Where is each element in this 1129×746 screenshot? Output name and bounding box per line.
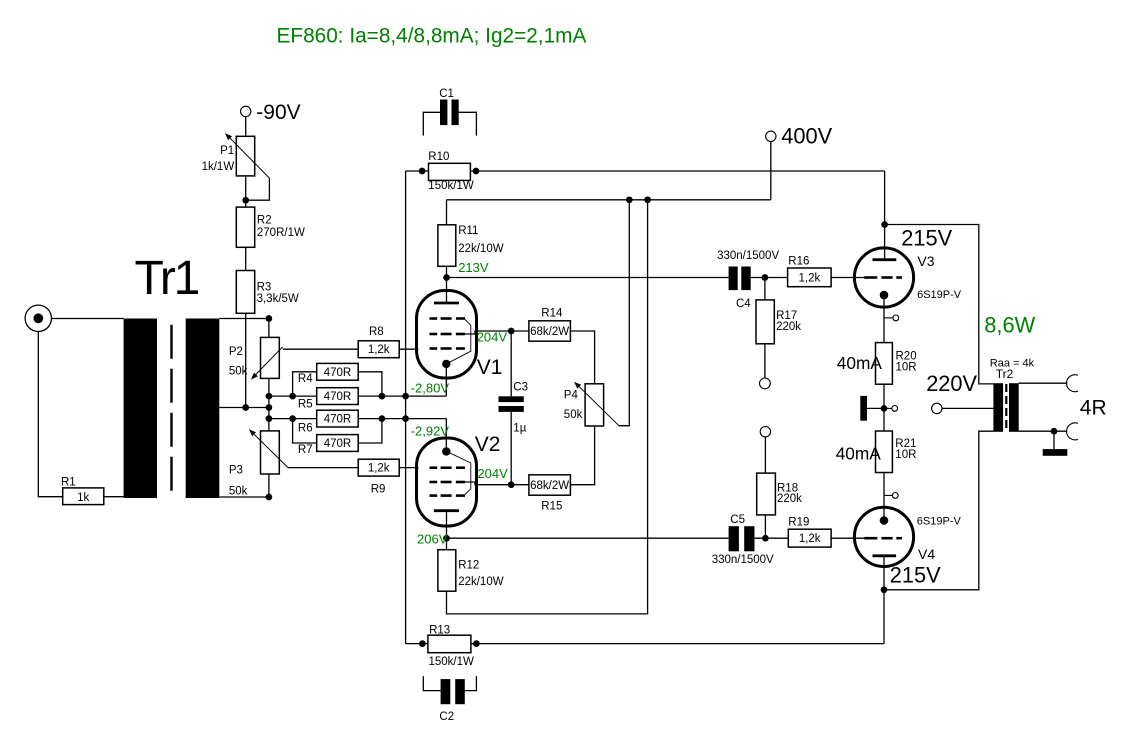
resistor R2	[236, 207, 254, 247]
wire R1 to Tr1 primary bottom	[104, 496, 124, 498]
tube V1 anode plate	[434, 302, 459, 305]
svg-text:470R: 470R	[324, 438, 352, 450]
resistor R7	[317, 435, 359, 452]
resistor R4	[317, 363, 359, 380]
wire V4 anode to Tr2 bottom	[884, 431, 993, 590]
svg-text:R5: R5	[298, 398, 313, 410]
wire P4 wiper to 400V rail	[619, 200, 629, 426]
svg-text:330n/1500V: 330n/1500V	[712, 554, 774, 566]
wire P3 wiper to R9	[288, 467, 358, 469]
svg-text:1k: 1k	[77, 492, 89, 504]
resistor R15	[529, 475, 571, 495]
resistor R14	[529, 321, 571, 341]
wire V4 anode down to bottom rail	[883, 590, 885, 644]
wire 400V terminal lead	[770, 142, 772, 200]
wire R2 to R3	[245, 247, 247, 270]
svg-text:470R: 470R	[324, 414, 352, 426]
node C4 R16 R17 junction	[762, 274, 769, 281]
wire R12 bottom to 400V rail	[447, 200, 648, 614]
svg-text:P3: P3	[229, 464, 243, 476]
wire P2 bottom to P3 top	[268, 378, 270, 431]
resistor R18	[757, 473, 776, 515]
node row B feedback	[402, 415, 409, 422]
wire feedback top corner	[406, 170, 429, 172]
terminal 220V	[932, 403, 942, 413]
wire R8 to V1 grid	[399, 348, 418, 350]
svg-text:V1: V1	[477, 356, 503, 379]
wire 400V rail horizontal	[447, 199, 771, 201]
tube V2 cathode dot	[442, 447, 450, 455]
wire row B to R6	[269, 418, 317, 420]
wire 213V line to C4	[447, 277, 729, 279]
svg-text:22k/10W: 22k/10W	[458, 243, 504, 255]
tube V3 anode lead	[884, 171, 886, 260]
svg-text:-90V: -90V	[256, 101, 300, 124]
svg-text:R11: R11	[458, 225, 478, 237]
resistor R19	[788, 529, 831, 547]
node R10 left	[419, 168, 426, 175]
svg-text:R2: R2	[257, 215, 272, 227]
wire C1 right lead	[459, 112, 477, 135]
wire C5 to R19	[755, 537, 789, 539]
svg-text:206V: 206V	[417, 532, 448, 547]
node V2 anode 206V	[443, 535, 450, 542]
wire C2 left lead	[423, 676, 440, 691]
capacitor C5	[729, 526, 739, 551]
wire secondary bottom to P3 bottom	[219, 496, 269, 498]
tube V4 anode plate	[873, 554, 897, 557]
svg-text:R1: R1	[61, 477, 76, 489]
node C5 R19 R18 junction	[762, 535, 769, 542]
resistor R20	[876, 343, 893, 385]
svg-text:150k/1W: 150k/1W	[428, 180, 474, 192]
wire input down to R1	[38, 332, 62, 497]
resistor R13	[428, 635, 471, 653]
wire R21 top	[883, 408, 885, 431]
svg-text:1k/1W: 1k/1W	[202, 161, 235, 173]
wire R19 to V4 grid	[831, 537, 866, 539]
resistor R5	[317, 388, 359, 405]
wire Tr2 secondary top	[1019, 382, 1067, 384]
wire R4 right lead	[358, 372, 382, 396]
node P3 top row B	[266, 415, 273, 422]
wire -90V to P1	[245, 117, 247, 137]
svg-text:R10: R10	[428, 151, 449, 163]
svg-text:204V: 204V	[477, 330, 508, 345]
wire R15 to P4 bottom	[570, 426, 594, 485]
svg-text:R9: R9	[371, 484, 386, 496]
tube V2 g3-cathode link	[448, 452, 471, 496]
svg-text:270R/1W: 270R/1W	[257, 227, 305, 239]
wire R11 top lead	[446, 200, 448, 225]
resistor R1	[63, 488, 104, 505]
node R20 R21 junction	[881, 405, 888, 412]
resistor R21	[876, 431, 893, 473]
wire R7 right lead	[358, 419, 382, 443]
svg-text:V2: V2	[475, 433, 501, 456]
svg-text:220k: 220k	[777, 493, 802, 505]
svg-text:1µ: 1µ	[513, 423, 526, 435]
transformer Tr1 core dashed line	[170, 325, 172, 493]
node V3 anode junction	[881, 221, 888, 228]
capacitor C2	[441, 679, 451, 704]
node center tap P2P3 junction	[266, 404, 273, 411]
node R10 right	[473, 168, 480, 175]
transformer Tr2 primary winding	[993, 383, 1003, 432]
tube V1 g3-cathode link	[448, 319, 471, 364]
wire R16 to V3 grid	[831, 277, 866, 279]
svg-text:R3: R3	[257, 282, 272, 294]
wire R11 bottom lead	[446, 266, 448, 277]
wire feedback vertical	[405, 171, 407, 644]
svg-text:50k: 50k	[229, 366, 248, 378]
transformer Tr1 primary winding	[124, 319, 157, 499]
tube V3 cathode lead	[883, 295, 885, 343]
svg-text:215V: 215V	[901, 226, 952, 251]
svg-text:R6: R6	[298, 423, 313, 435]
svg-text:22k/10W: 22k/10W	[458, 576, 504, 588]
node row B R6R7 left	[289, 415, 296, 422]
resistor R16	[788, 268, 832, 287]
svg-text:400V: 400V	[781, 124, 832, 149]
wire R17 top lead	[764, 278, 766, 300]
svg-text:470R: 470R	[324, 367, 352, 379]
terminal 400V	[766, 131, 776, 141]
node row A R4R5 left	[289, 393, 296, 400]
tube V4 anode lead	[883, 556, 885, 590]
tube V1 cathode dot	[442, 360, 450, 368]
svg-text:C3: C3	[513, 382, 528, 394]
output connector top	[1067, 375, 1078, 392]
wire C1 left lead	[423, 112, 440, 135]
input connector J1	[25, 305, 51, 331]
svg-text:215V: 215V	[890, 562, 941, 587]
svg-text:6S19P-V: 6S19P-V	[917, 515, 962, 527]
tube V2 grid g2 dashes	[430, 481, 438, 484]
svg-text:8,6W: 8,6W	[984, 312, 1035, 337]
node R13 right	[473, 640, 480, 647]
svg-text:R13: R13	[429, 624, 450, 636]
wire C2 right lead	[465, 676, 477, 691]
wire C3 bottom lead	[510, 412, 512, 485]
wire input to Tr1 primary top	[52, 318, 124, 320]
wire R10 to V3 anode	[470, 170, 884, 172]
wire secondary center tap	[219, 407, 269, 409]
tube V1 anode lead	[446, 278, 448, 304]
node P3 bottom junction	[266, 494, 273, 501]
svg-text:40mA: 40mA	[836, 444, 882, 464]
svg-text:R19: R19	[788, 517, 809, 529]
resistor R10	[429, 163, 471, 180]
node row A feedback	[402, 393, 409, 400]
wire C4 to R16	[751, 277, 788, 279]
wire P1 to R2	[245, 176, 247, 207]
svg-text:40mA: 40mA	[837, 353, 883, 373]
node 400V R12 tap	[644, 196, 651, 203]
svg-text:Tr1: Tr1	[135, 252, 199, 305]
tube V3 cathode dot	[880, 291, 889, 300]
tube V3 anode plate	[873, 258, 897, 261]
wire V3 anode to Tr2 top	[885, 225, 994, 384]
svg-text:470R: 470R	[324, 391, 352, 403]
wire R6 right to V2 cathode	[358, 418, 446, 420]
wire feedback bottom corner	[406, 643, 428, 645]
capacitor C4	[729, 267, 738, 291]
resistor R3	[236, 271, 254, 314]
potentiometer P4	[585, 384, 604, 426]
tube V2 anode plate	[434, 509, 459, 512]
wire C3 top lead	[510, 331, 512, 396]
svg-text:213V: 213V	[458, 260, 489, 275]
resistor R11	[438, 225, 456, 266]
svg-text:68k/2W: 68k/2W	[530, 326, 569, 338]
svg-text:150k/1W: 150k/1W	[429, 656, 475, 668]
svg-text:EF860: Ia=8,4/8,8mA; Ig2=2,1mA: EF860: Ia=8,4/8,8mA; Ig2=2,1mA	[277, 25, 587, 48]
tube V1 grid g1 dashes	[430, 347, 438, 350]
wire row A to R5	[269, 395, 317, 397]
resistor R8	[358, 341, 399, 358]
resistor R12	[438, 550, 456, 592]
potentiometer P2	[261, 337, 280, 378]
svg-text:R12: R12	[458, 560, 479, 572]
wire down to P2 top	[268, 319, 270, 338]
svg-text:R14: R14	[541, 308, 563, 320]
svg-text:330n/1500V: 330n/1500V	[717, 250, 779, 262]
svg-text:10R: 10R	[896, 361, 917, 373]
wire R4 left lead	[293, 372, 317, 396]
test point V3 cathode	[884, 317, 893, 319]
tube V1 grid g2 dashes	[430, 333, 438, 336]
wire 206V line to C5	[447, 537, 729, 539]
svg-text:P2: P2	[229, 346, 243, 358]
tube V3 grid dashes	[864, 276, 877, 279]
wire R13 to V4 anode	[471, 643, 884, 645]
wire R21 to V4 cathode	[883, 473, 885, 521]
tube V2 cathode lead	[445, 419, 447, 452]
svg-text:C2: C2	[439, 711, 454, 723]
node 400V P4 tap	[626, 196, 633, 203]
wire R7 left lead	[293, 419, 317, 443]
capacitor C1	[440, 100, 447, 126]
svg-text:6S19P-V: 6S19P-V	[917, 289, 962, 301]
node V1 anode 213V	[443, 274, 450, 281]
wire V1 g2 to R14	[511, 330, 529, 332]
node row A right	[379, 393, 386, 400]
node R13 left	[419, 640, 426, 647]
svg-text:50k: 50k	[564, 409, 583, 421]
svg-text:68k/2W: 68k/2W	[530, 480, 569, 492]
tube V1 envelope	[417, 291, 477, 379]
node output ground junction	[1051, 428, 1058, 435]
tube V2 grid g3 dashes	[430, 494, 438, 497]
node V2 g2 junction	[508, 481, 515, 488]
node secondary top junction	[266, 315, 273, 322]
wire P3 bottom lead	[268, 474, 270, 497]
svg-text:-2,92V: -2,92V	[411, 423, 450, 438]
svg-text:R7: R7	[298, 444, 313, 456]
wire 220V to Tr2	[942, 407, 993, 409]
wire R5 right to V1 cathode	[358, 395, 446, 397]
wire secondary top to P2	[219, 318, 269, 320]
wire R12 top lead	[446, 538, 448, 550]
svg-text:R4: R4	[298, 373, 313, 385]
transformer Tr1 secondary winding	[186, 319, 220, 499]
tube V2 anode lead	[446, 511, 448, 539]
node P2 bottom row A	[266, 393, 273, 400]
potentiometer P1	[236, 136, 254, 176]
svg-text:Tr2: Tr2	[996, 367, 1014, 381]
resistor R6	[317, 410, 359, 427]
svg-text:1,2k: 1,2k	[799, 533, 821, 545]
wire P1 wiper to P1 bottom	[246, 178, 270, 200]
terminal -90V	[241, 106, 251, 116]
tube V2 envelope	[417, 438, 477, 526]
wire to output ground	[1053, 431, 1055, 449]
svg-text:R8: R8	[369, 326, 384, 338]
svg-text:220V: 220V	[926, 371, 977, 396]
svg-text:V3: V3	[917, 253, 934, 269]
wire Tr2 secondary bottom	[1019, 430, 1067, 432]
wire R17 bottom lead	[764, 344, 766, 378]
svg-text:C1: C1	[439, 88, 454, 100]
terminal R18 bias test	[760, 427, 770, 437]
svg-text:C5: C5	[730, 514, 745, 526]
svg-text:10R: 10R	[895, 449, 916, 461]
tube V1 g2 exit wire	[456, 331, 511, 334]
svg-text:P1: P1	[220, 145, 234, 157]
svg-text:220k: 220k	[776, 321, 801, 333]
node V4 anode junction	[881, 586, 888, 593]
svg-text:R16: R16	[788, 255, 809, 267]
output connector bottom	[1067, 423, 1078, 440]
wire V2 g2 to R15	[511, 484, 529, 486]
tube V4 cathode dot	[880, 516, 889, 525]
wire R3 to secondary center tap	[245, 313, 247, 407]
wire R18 bottom lead	[764, 515, 766, 538]
svg-text:V4: V4	[918, 546, 935, 562]
wire R9 to V2 grid	[399, 467, 418, 469]
ground symbol output	[1043, 449, 1068, 456]
tube V2 grid g1 dashes	[430, 466, 438, 469]
transformer Tr2 secondary winding	[1009, 383, 1019, 432]
tube V1 grid g3 dashes	[430, 317, 438, 320]
svg-text:50k: 50k	[229, 486, 248, 498]
tube V1 cathode lead	[445, 364, 447, 396]
svg-text:1,2k: 1,2k	[368, 344, 390, 356]
tube V3 envelope	[854, 248, 913, 307]
ground symbol mid	[860, 396, 867, 421]
potentiometer P3	[261, 431, 280, 474]
node V1 g2 junction	[508, 328, 515, 335]
svg-text:C4: C4	[736, 298, 751, 310]
wire P2 wiper to R8	[283, 348, 359, 350]
tube V2 g2 exit wire	[456, 482, 511, 485]
node P1/R2 junction	[242, 197, 249, 204]
test point mid	[884, 407, 892, 409]
capacitor C3	[499, 396, 524, 402]
svg-text:-2,80V: -2,80V	[411, 380, 450, 395]
svg-text:3,3k/5W: 3,3k/5W	[257, 293, 299, 305]
resistor R17	[756, 300, 774, 344]
transformer Tr2 core dashed line	[1005, 384, 1007, 431]
svg-text:1,2k: 1,2k	[799, 273, 821, 285]
wire R18 top lead	[764, 437, 766, 473]
test point V4 cathode	[884, 494, 892, 496]
wire R14 to P4 top	[570, 331, 594, 384]
terminal R17 bias test	[760, 378, 771, 389]
node center tap R3 junction	[242, 404, 249, 411]
resistor R9	[358, 459, 399, 476]
svg-text:R15: R15	[541, 501, 562, 513]
wire R20 bottom	[883, 384, 885, 408]
tube V4 grid dashes	[864, 537, 877, 540]
svg-text:204V: 204V	[477, 466, 508, 481]
node row B right	[379, 415, 386, 422]
svg-text:4R: 4R	[1080, 397, 1107, 420]
svg-text:1,2k: 1,2k	[368, 463, 390, 475]
tube V4 envelope	[854, 507, 913, 566]
svg-text:P4: P4	[564, 390, 579, 402]
